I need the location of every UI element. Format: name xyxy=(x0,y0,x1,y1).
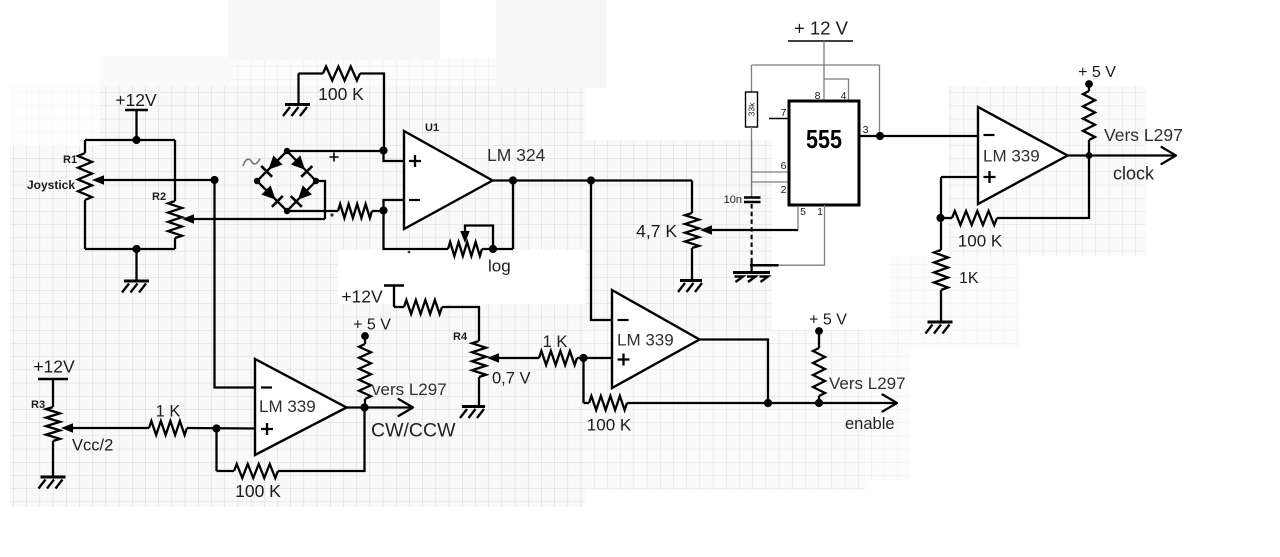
wiper arrow R4 xyxy=(487,353,499,363)
op-amp LM339 clock xyxy=(978,107,1068,204)
wire bridge top to U1 + node xyxy=(287,150,384,152)
svg-text:100 K: 100 K xyxy=(958,232,1003,251)
wire 1K leads xyxy=(940,218,942,250)
node cwccw plus xyxy=(212,424,220,432)
wire log to output branch xyxy=(482,248,513,250)
svg-text:+ 5 V: + 5 V xyxy=(353,317,391,334)
svg-text:R1: R1 xyxy=(63,154,77,166)
svg-text:33k: 33k xyxy=(747,102,757,116)
svg-text:+12V: +12V xyxy=(115,90,157,110)
node +5V terminal (enable) xyxy=(815,327,823,335)
node U1 plus input xyxy=(379,146,387,154)
potentiometer R4 body xyxy=(472,341,486,377)
wiper arrow R3 xyxy=(61,423,73,433)
wire R1 top lead xyxy=(84,140,86,153)
svg-text:1 K: 1 K xyxy=(156,403,181,421)
resistor 100 K (enable feedback) xyxy=(589,396,627,410)
node U1 output feedback xyxy=(509,176,517,184)
wire feedback join xyxy=(584,402,590,404)
ground (4,7K) xyxy=(680,279,702,282)
cwccw minus sign xyxy=(261,386,272,388)
svg-text:+ 12 V: + 12 V xyxy=(794,18,849,39)
wire pin 6 stub xyxy=(752,171,790,173)
node enable pull-up join xyxy=(815,399,823,407)
wire cap to ground (dashed) xyxy=(751,204,753,261)
wire plus node down xyxy=(940,177,942,218)
node joystick wiper junction xyxy=(210,176,218,184)
wire 1K to plus input xyxy=(577,357,612,359)
pin 7 stub xyxy=(769,118,790,120)
wire pin 1 to ground xyxy=(779,205,825,265)
svg-text:LM 324: LM 324 xyxy=(487,145,546,165)
wire joystick bottom rail xyxy=(85,248,175,250)
wire +12V rail to 33k and output pull xyxy=(752,64,880,66)
wire 4,7K pot to ground xyxy=(691,248,693,280)
wiper arrow R2 xyxy=(182,214,194,224)
svg-text:log: log xyxy=(488,257,511,276)
svg-text:100 K: 100 K xyxy=(587,416,632,435)
node output to comparator branch xyxy=(587,176,595,184)
wire 100K to ground xyxy=(297,74,299,105)
svg-text:CW/CCW: CW/CCW xyxy=(371,420,456,442)
wire feedback vertical xyxy=(512,181,514,250)
resistor bridge-to-U1 (unlabeled) xyxy=(338,204,372,218)
ground (clock 1K) xyxy=(928,321,953,324)
svg-text:+12V: +12V xyxy=(33,357,75,377)
svg-text:enable: enable xyxy=(845,415,895,433)
svg-text:1 K: 1 K xyxy=(543,333,568,351)
svg-text:4,7 K: 4,7 K xyxy=(636,221,677,241)
svg-text:5: 5 xyxy=(800,206,806,218)
plus polarity mark xyxy=(330,153,339,162)
resistor R4 top (unlabeled) xyxy=(404,300,442,314)
AC squiggle symbol xyxy=(243,159,260,167)
svg-text:4: 4 xyxy=(841,90,847,102)
svg-text:1: 1 xyxy=(817,206,823,218)
wire +12V rail down to output node xyxy=(879,65,881,136)
node +5V terminal (clock) xyxy=(1085,80,1093,88)
svg-text:U1: U1 xyxy=(425,122,439,134)
clock comparator plus sign xyxy=(984,171,996,183)
wire R1 bottom lead xyxy=(84,200,86,249)
ground (R3) xyxy=(41,476,66,479)
svg-text:100 K: 100 K xyxy=(235,481,281,501)
wire 555 output to comparator minus xyxy=(880,135,978,137)
wire resistor to minus node xyxy=(372,210,384,212)
node enable feedback join xyxy=(764,399,772,407)
wire R2 bottom lead xyxy=(174,238,176,249)
ground (R4) xyxy=(462,405,485,408)
power +12V bar (R4) xyxy=(384,284,404,286)
power +12V bar (555) xyxy=(788,40,853,42)
wire clock plus input xyxy=(941,176,978,178)
svg-text:1K: 1K xyxy=(959,270,979,287)
svg-text:6: 6 xyxy=(781,160,787,172)
svg-text:0,7 V: 0,7 V xyxy=(492,370,531,388)
wire into U1 plus xyxy=(384,151,405,162)
svg-text:Vers L297: Vers L297 xyxy=(1104,125,1183,145)
wire U1 minus feedback down xyxy=(384,211,449,250)
resistor 100 K (clock feedback) xyxy=(952,211,997,225)
wire 100K to output xyxy=(941,217,952,219)
node log wiper join xyxy=(489,245,497,253)
diode D4 (bottom-right) xyxy=(298,185,312,199)
node cwccw output xyxy=(360,403,368,411)
diode D3 (bottom-left) xyxy=(261,185,275,199)
node 555 output xyxy=(876,132,884,140)
node clock output xyxy=(1086,152,1093,159)
svg-text:Vcc/2: Vcc/2 xyxy=(72,437,113,455)
wire enable output xyxy=(768,402,895,404)
node clock feedback xyxy=(936,214,944,222)
capacitor 10n xyxy=(744,198,761,203)
wiper arrow R1 xyxy=(92,175,104,185)
arrow cwccw output xyxy=(399,399,414,416)
wire into U1 minus xyxy=(384,200,405,211)
node joystick top rail xyxy=(132,136,140,144)
arrow clock output xyxy=(1162,147,1177,164)
svg-text:R3: R3 xyxy=(31,399,45,411)
svg-text:555: 555 xyxy=(806,124,842,154)
clock comparator minus sign xyxy=(984,134,995,136)
wire U1 output xyxy=(493,179,693,181)
resistor +5V pull-up (enable) xyxy=(813,348,825,396)
potentiometer log body xyxy=(448,242,482,256)
svg-text:vers L297: vers L297 xyxy=(372,380,447,399)
potentiometer 4,7 K body xyxy=(685,213,699,248)
arrow enable output xyxy=(883,395,898,412)
wire resistor to R4 xyxy=(442,307,479,341)
resistor 100 K (cwccw feedback) xyxy=(234,464,278,478)
pin 3 output lead xyxy=(859,135,880,137)
wire R3 to ground xyxy=(52,441,54,476)
wire pin 5 stub down xyxy=(797,206,799,230)
wire bridge right corner to R2 wiper xyxy=(316,181,325,219)
op-amp U1 LM324 xyxy=(404,131,493,229)
wire +12V trunk to pin 8 xyxy=(823,41,825,101)
node U1 minus input xyxy=(379,206,387,214)
wire clock output xyxy=(1068,154,1175,156)
svg-text:+12V: +12V xyxy=(341,287,383,307)
svg-text:R4: R4 xyxy=(453,331,468,343)
power +12V supply (joystick) xyxy=(125,109,148,112)
speck artifact near bridge xyxy=(330,213,333,216)
resistor R2 (pot body) xyxy=(168,201,182,238)
svg-text:3: 3 xyxy=(863,124,869,136)
wire R4 to ground xyxy=(478,377,480,406)
resistor R1 (pot body) xyxy=(78,153,92,200)
resistor 1K (clock) xyxy=(934,250,948,290)
wire feedback left lead xyxy=(217,470,235,472)
svg-text:clock: clock xyxy=(1113,164,1155,184)
cwccw plus sign xyxy=(261,423,273,435)
wire pin 8 to pin 4 bracket xyxy=(824,79,849,101)
wire plus node down to 100K xyxy=(582,358,584,403)
diode bridge frame xyxy=(257,151,316,211)
svg-text:LM 339: LM 339 xyxy=(617,331,674,350)
wire bridge bottom to input resistor xyxy=(287,210,338,212)
resistor 100 K (top) xyxy=(323,67,360,81)
ground (555) xyxy=(750,264,779,267)
wire R2 top lead xyxy=(174,140,176,201)
wiper arrow log xyxy=(460,231,470,243)
ground (100K top) xyxy=(285,103,310,106)
potentiometer R3 body xyxy=(46,407,60,441)
ground (joystick) xyxy=(124,280,149,283)
resistor 1 K (enable) xyxy=(539,351,577,365)
wire feedback to output xyxy=(278,408,365,472)
node joystick bottom xyxy=(132,245,140,253)
wire output down to 4.7K pot xyxy=(691,181,693,214)
wire joystick wiper to comparator minus xyxy=(215,180,256,388)
resistor +5V pull-up (cwccw) xyxy=(359,344,371,399)
speck artifact near resistor xyxy=(408,251,411,254)
svg-text:R2: R2 xyxy=(152,191,166,203)
enable comparator plus sign xyxy=(618,354,630,366)
svg-text:10n: 10n xyxy=(724,194,742,206)
svg-text:2: 2 xyxy=(781,184,787,196)
svg-text:8: 8 xyxy=(815,90,821,102)
wire to joystick ground xyxy=(135,249,137,280)
svg-text:Vers L297: Vers L297 xyxy=(829,374,906,393)
wire plus down to 100K xyxy=(215,429,217,472)
wire 1K to plus xyxy=(187,427,255,430)
op-amp LM339 enable xyxy=(612,290,700,388)
wiper arrow 4,7K xyxy=(700,225,712,235)
svg-text:+ 5 V: + 5 V xyxy=(1078,64,1116,81)
power +12V bar (R3) xyxy=(38,378,68,380)
diode D2 (top-right) xyxy=(291,155,305,169)
resistor 1 K (cwccw) xyxy=(149,421,187,435)
svg-text:LM 339: LM 339 xyxy=(259,397,316,416)
wire 33k down to pins 6/2 and cap xyxy=(751,127,753,197)
wire 100K top right lead xyxy=(360,74,384,151)
enable comparator minus sign xyxy=(618,319,629,321)
svg-text:100 K: 100 K xyxy=(318,84,364,104)
U1 minus sign xyxy=(409,199,420,201)
svg-text:7: 7 xyxy=(781,107,787,119)
wire output down to feedback xyxy=(700,340,769,404)
IC 555 body xyxy=(789,101,859,205)
U1 plus sign xyxy=(409,155,421,167)
diode D1 (top-left) xyxy=(268,155,282,169)
resistor 33k (box style) xyxy=(746,92,758,127)
wire 100K top left lead xyxy=(299,72,324,74)
wire joystick top rail xyxy=(85,139,175,141)
wire pin 2 stub xyxy=(752,181,790,183)
svg-text:Joystick: Joystick xyxy=(27,178,75,192)
wire to R4 top resistor xyxy=(394,306,404,308)
svg-text:+ 5 V: + 5 V xyxy=(809,312,847,329)
op-amp LM339 cwccw xyxy=(255,359,347,455)
svg-text:LM 339: LM 339 xyxy=(983,147,1040,166)
wire rail down to 33k xyxy=(751,65,753,92)
resistor +5V pull-up (clock) xyxy=(1083,91,1095,140)
node enable plus xyxy=(579,354,587,362)
node +5V terminal (cwccw) xyxy=(361,332,369,340)
wire cwccw output xyxy=(347,406,412,408)
wire branch down to enable comparator xyxy=(591,181,612,321)
